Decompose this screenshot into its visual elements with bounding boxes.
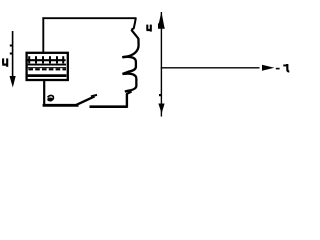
inductor L (coil, 3 loops opening left) bbox=[122, 38, 138, 91]
wire top-right corner down bbox=[131, 18, 136, 30]
capacitor plus-row crossbar bbox=[27, 59, 66, 61]
wire capacitor bottom stub bbox=[43, 79, 45, 106]
coil cusp blob 1 bbox=[122, 55, 128, 58]
wire top of loop bbox=[42, 17, 136, 19]
coil cusp blob 2 bbox=[123, 72, 129, 75]
coil tail bar bbox=[125, 90, 130, 91]
node a label bbox=[47, 95, 53, 101]
wire left vertical to capacitor bbox=[42, 17, 44, 54]
wire jog to coil bottom bbox=[126, 92, 131, 95]
axis arrowhead up bbox=[158, 12, 165, 29]
t-axis arrowhead right bbox=[262, 65, 274, 71]
label u (axis) bbox=[146, 25, 151, 32]
switch blade (open) bbox=[77, 96, 95, 104]
capacitor plus charges bbox=[29, 56, 63, 63]
capacitor C (charged, box with plates) bbox=[27, 53, 68, 80]
label t (axis) bbox=[283, 64, 289, 71]
axis tick nub bbox=[159, 94, 161, 96]
capacitor minus charges bbox=[28, 68, 66, 70]
switch blade tip nub bbox=[91, 95, 97, 97]
graph vertical axis u bbox=[160, 12, 162, 117]
axis arrowhead down bbox=[158, 104, 164, 114]
tick nubs on arrow line bbox=[10, 45, 13, 47]
capacitor middle plate line bbox=[27, 64, 66, 66]
capacitor lower plate thick line bbox=[28, 74, 67, 77]
wire bottom right bbox=[90, 105, 128, 108]
voltage arrowhead down bbox=[10, 76, 16, 88]
label u (voltage) bbox=[2, 58, 7, 66]
graph horizontal axis t bbox=[161, 67, 260, 69]
t-axis arrow tail dash bbox=[276, 68, 280, 70]
wire diagonal jog into coil bbox=[131, 30, 138, 39]
capacitor minus-row thin line bbox=[28, 67, 66, 69]
voltage arrow u (left of capacitor) bbox=[12, 31, 14, 78]
wire bottom-right corner vertical bbox=[126, 94, 128, 108]
wire bottom left bbox=[43, 104, 79, 107]
